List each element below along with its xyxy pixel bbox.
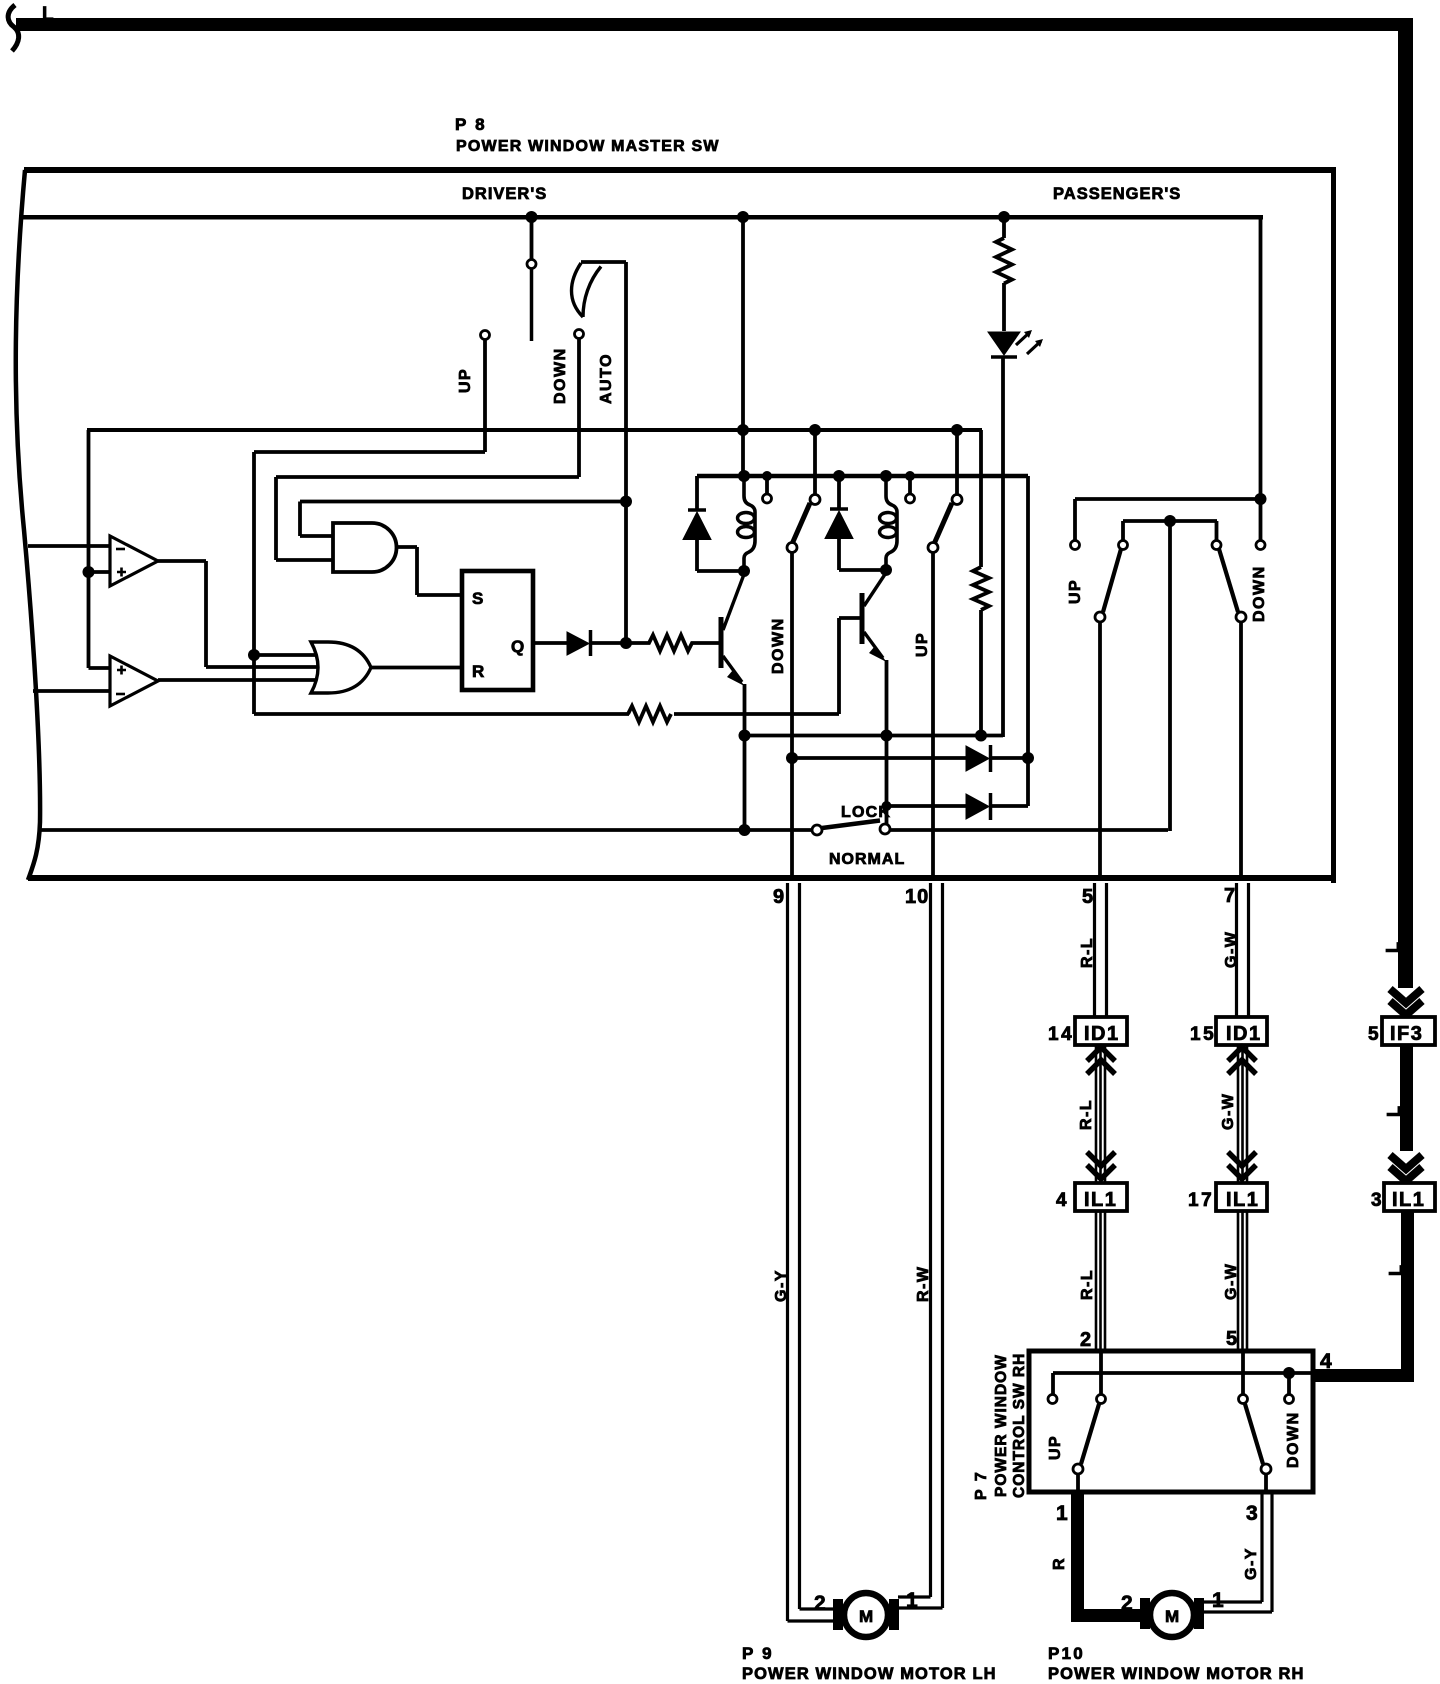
svg-text:5: 5 — [1082, 886, 1093, 908]
svg-text:L: L — [1384, 1106, 1404, 1117]
junction at op-amp1 + input — [83, 566, 95, 578]
junction AUTO line / feedback wire — [620, 496, 632, 508]
switch LOCK/NORMAL: right contact — [880, 824, 890, 834]
motor P10 right terminal (pin 1) — [1194, 1598, 1204, 1629]
connector arrows below 15 ID1 (pointing up) — [1228, 1047, 1256, 1074]
wire Q2 emitter down to LOCK contact — [885, 660, 889, 824]
junction logic bus / relay1 switch — [809, 424, 821, 436]
connector 5 IF3 — [1382, 1017, 1435, 1045]
svg-text:17: 17 — [1188, 1190, 1214, 1211]
transistor Q2 collector — [864, 572, 887, 606]
resistor R3 (vertical, from logic bus) — [973, 430, 989, 736]
svg-text:10: 10 — [905, 886, 929, 908]
resistor R1 (base of Q1) — [626, 635, 719, 651]
svg-text:DOWN: DOWN — [1285, 1411, 1302, 1468]
svg-text:L: L — [1383, 942, 1403, 953]
motor P9 (LH) body — [844, 1593, 888, 1637]
junction K1 output / diode D4 wire — [786, 752, 798, 764]
P7 left blade lower contact (pin 1) — [1073, 1464, 1083, 1474]
svg-text:1: 1 — [1056, 1502, 1068, 1525]
svg-text:IL1: IL1 — [1226, 1189, 1259, 1211]
junction passenger feed / UP contact wire — [1255, 493, 1267, 505]
wire relay contact bus — [697, 474, 1028, 479]
P7 right blade pivot (pin 5) — [1239, 1395, 1248, 1404]
junction Q1 emitter / lower bus — [739, 730, 751, 742]
diode D4 (interlock to passenger UP) — [792, 756, 966, 760]
connector 4 IL1 — [1075, 1183, 1127, 1211]
wire NORMAL bus (left part) — [41, 828, 812, 832]
svg-text:IL1: IL1 — [1392, 1189, 1425, 1211]
wire R thick pin 1 to motor RH — [1071, 1492, 1084, 1616]
wire op-amp U2 inverting input from page edge — [33, 689, 110, 693]
svg-text:CONTROL SW RH: CONTROL SW RH — [1011, 1353, 1028, 1498]
passenger switch blade pivot right — [1212, 541, 1221, 550]
diode D2 (DOWN relay clamp) — [695, 476, 699, 509]
junction UP wire to OR gate input — [248, 649, 260, 661]
relay K1 NC pip contact — [765, 476, 769, 493]
connector arrows above 4 IL1 (pointing down) — [1087, 1152, 1115, 1179]
passenger switch DOWN contact — [1256, 541, 1265, 550]
wire P7 pin1 stub — [1076, 1474, 1080, 1492]
relay K1 switch blade — [792, 503, 810, 544]
motor P9 left terminal (pin 2) — [833, 1599, 843, 1630]
wire L horizontal into P7 pin 4 — [1312, 1369, 1414, 1382]
connector 3 IL1 — [1384, 1183, 1435, 1211]
svg-text:14: 14 — [1048, 1024, 1074, 1045]
junction Q2 emitter / diode D5 wire — [882, 801, 892, 811]
svg-text:7: 7 — [1224, 885, 1235, 907]
wire AUTO feedback to AND gate top input — [300, 502, 626, 537]
wire passenger UP output to pin 5 — [1098, 622, 1102, 877]
relay K1 switch top contact — [813, 430, 817, 494]
junction coil1 / Q1 collector — [738, 565, 750, 577]
wire UP contact to comparator section — [254, 339, 485, 714]
relay K2 NC pip contact — [908, 476, 912, 493]
connector 14 ID1 — [1075, 1017, 1127, 1045]
passenger switch blade pivot left — [1119, 541, 1128, 550]
svg-text:UP: UP — [1047, 1435, 1064, 1460]
svg-text:Q: Q — [511, 637, 524, 656]
P7 right blade (DOWN) — [1245, 1404, 1263, 1464]
motor P10 left terminal (pin 2) — [1140, 1598, 1150, 1629]
transistor Q1 emitter with arrow — [723, 656, 742, 682]
connector arrows below 14 ID1 (pointing up) — [1087, 1047, 1115, 1074]
wire relay K1 output down to pin 9 — [790, 552, 794, 877]
relay K1 coil (DOWN) — [744, 477, 755, 571]
svg-text:POWER WINDOW MOTOR RH: POWER WINDOW MOTOR RH — [1048, 1665, 1305, 1683]
wire NORMAL bus (right part) to passenger common — [890, 521, 1170, 831]
junction R3 / lower bus — [975, 730, 987, 742]
driver's switch common stem — [530, 218, 534, 259]
svg-text:NORMAL: NORMAL — [829, 851, 905, 868]
connector arrow into IF3 (double chevron down) — [1390, 989, 1422, 1003]
svg-text:ID1: ID1 — [1084, 1023, 1120, 1045]
svg-text:15: 15 — [1190, 1024, 1216, 1045]
wire op-amp U2 output to OR gate bottom input — [158, 678, 322, 682]
wire G-Y pin 9 double line down to motor LH — [788, 883, 834, 1621]
junction passenger common / NORMAL wire — [1164, 515, 1176, 527]
wire Q1 emitter down to NORMAL wire — [743, 684, 747, 830]
component P7 control switch box — [1029, 1351, 1313, 1492]
op-amp U1 (upper comparator) — [110, 536, 158, 586]
svg-text:4: 4 — [1056, 1190, 1067, 1211]
junction on bus at relay feed — [737, 211, 749, 223]
wire R-W pin 10 double line down to motor LH — [898, 883, 931, 1597]
P7 right blade lower contact (pin 3) — [1261, 1464, 1271, 1474]
wire latch Q output — [532, 641, 567, 645]
relay K2 switch output contact — [928, 543, 938, 553]
svg-text:DOWN: DOWN — [1251, 565, 1268, 622]
wire P7 internal feed (pin 4) — [1053, 1371, 1312, 1375]
svg-text:G-W: G-W — [1223, 1263, 1240, 1300]
svg-text:S: S — [472, 589, 483, 608]
svg-text:POWER WINDOW MASTER SW: POWER WINDOW MASTER SW — [456, 138, 720, 155]
svg-text:G-W: G-W — [1223, 931, 1240, 968]
svg-text:DOWN: DOWN — [770, 617, 787, 674]
junction logic bus / relay2 switch — [951, 424, 963, 436]
junction contact bus / pip1 — [762, 471, 772, 481]
motor P9 right terminal (pin 1) — [889, 1599, 899, 1630]
svg-text:5: 5 — [1368, 1024, 1379, 1045]
component P8 box: top edge — [24, 167, 1336, 173]
wire passenger DOWN output to pin 7 — [1239, 622, 1243, 877]
junction logic bus / relay feed — [737, 424, 749, 436]
wire R-L between ID1 and IL1 — [1096, 1045, 1105, 1183]
svg-text:P10: P10 — [1048, 1644, 1085, 1663]
junction Q-diode / AUTO line — [620, 637, 632, 649]
transistor Q2 emitter with arrow — [864, 632, 883, 658]
passenger switch right blade lower contact — [1236, 612, 1246, 622]
svg-text:P 9: P 9 — [742, 1644, 774, 1663]
wire AND gate output to latch S input — [396, 547, 462, 595]
motor P10 (RH) body — [1150, 1593, 1194, 1637]
transistor Q2 (UP driver) base bar — [860, 593, 865, 644]
passenger switch left blade — [1103, 549, 1121, 612]
wire main bus right corner down (passenger feed) — [1259, 215, 1263, 541]
junction on bus at driver switch — [526, 211, 538, 223]
diode D1 (after Q output) — [567, 632, 589, 655]
relay K2 coil (UP) — [886, 477, 897, 570]
svg-text:ID1: ID1 — [1226, 1023, 1262, 1045]
op-amp U2 (lower comparator) — [110, 656, 158, 706]
relay K2 switch blade — [934, 503, 952, 544]
P7 UP fixed contact — [1051, 1373, 1055, 1394]
resistor R2 (base of Q2) — [628, 706, 671, 722]
svg-text:L: L — [1386, 1265, 1406, 1276]
svg-text:2: 2 — [1121, 1592, 1133, 1615]
svg-text:P 8: P 8 — [455, 115, 487, 134]
OR gate (3-input) — [311, 642, 371, 693]
passenger switch right blade — [1219, 549, 1238, 612]
relay K2 switch top contact — [955, 430, 959, 494]
svg-text:G-Y: G-Y — [1243, 1547, 1260, 1580]
component P8 box: wavy left edge (continuation) — [16, 170, 40, 880]
svg-text:5: 5 — [1226, 1328, 1237, 1350]
svg-text:R-L: R-L — [1079, 937, 1096, 968]
svg-text:UP: UP — [914, 632, 931, 657]
svg-text:DOWN: DOWN — [552, 347, 569, 404]
svg-text:G-Y: G-Y — [773, 1269, 790, 1302]
wire relay feed from main bus — [741, 216, 745, 477]
passenger switch left blade lower contact — [1095, 612, 1105, 622]
P7 left blade pivot (pin 2) — [1097, 1395, 1106, 1404]
svg-text:R-L: R-L — [1078, 1099, 1095, 1130]
wire op-amp U1 output to OR gate middle input — [158, 561, 322, 667]
transistor Q1 collector — [723, 573, 745, 630]
wire relay contact bus right drop — [1026, 476, 1030, 806]
svg-text:1: 1 — [906, 1589, 918, 1612]
switch LOCK/NORMAL: left contact — [812, 825, 822, 835]
junction contact bus / coil1 — [738, 470, 750, 482]
svg-text:2: 2 — [814, 1592, 826, 1615]
driver's switch UP contact — [481, 331, 490, 340]
wire op-amp U1 inverting input from page edge — [28, 544, 110, 548]
wire L below IL1 down to P7 pin 4 — [1401, 1211, 1414, 1382]
svg-text:3: 3 — [1371, 1190, 1382, 1211]
svg-text:1: 1 — [1212, 1589, 1224, 1612]
svg-text:R-L: R-L — [1079, 1269, 1096, 1300]
svg-text:3: 3 — [1246, 1502, 1258, 1525]
wire passenger UP contact feed — [1075, 499, 1260, 540]
wire G-W pin 7 double line to connector ID1 — [1237, 883, 1249, 1017]
junction on bus at LED feed — [998, 211, 1010, 223]
wire lower path to Q2 base — [254, 618, 860, 714]
wire lower bus corner up to LED branch — [1001, 358, 1005, 737]
svg-text:M: M — [1165, 1607, 1179, 1626]
svg-text:R-W: R-W — [915, 1266, 932, 1302]
transistor Q1 (DOWN driver) base bar — [719, 617, 724, 668]
AND gate — [333, 523, 397, 572]
driver's switch AUTO lever (curved flag) — [572, 263, 602, 317]
svg-text:2: 2 — [1080, 1329, 1091, 1351]
junction contact bus drop / diode D4 — [1022, 752, 1034, 764]
svg-text:UP: UP — [457, 368, 474, 393]
svg-text:IF3: IF3 — [1390, 1023, 1423, 1045]
wire R-L pin 5 double line to connector ID1 — [1095, 883, 1107, 1017]
relay K1 switch output contact — [787, 543, 797, 553]
svg-text:9: 9 — [773, 886, 784, 908]
wire L: thick top bus bar — [16, 18, 1413, 31]
junction contact bus / coil2 — [880, 470, 892, 482]
junction Q1 emitter / NORMAL wire — [739, 824, 751, 836]
wire AUTO to latch section — [581, 262, 626, 643]
LED D6 (illumination) — [988, 332, 1020, 355]
diode D3 (UP relay clamp) — [837, 476, 841, 508]
driver's switch DOWN contact — [575, 330, 584, 339]
wire G-Y pin 3 double line to motor RH — [1204, 1492, 1262, 1602]
resistor R4 (LED series, passenger) — [996, 216, 1012, 331]
svg-text:IL1: IL1 — [1084, 1189, 1117, 1211]
driver's switch pivot contact — [527, 260, 536, 269]
connector 15 ID1 — [1216, 1017, 1267, 1045]
continuation squiggle (page break mark) — [8, 5, 19, 51]
svg-text:AUTO: AUTO — [598, 353, 615, 404]
svg-text:POWER WINDOW MOTOR LH: POWER WINDOW MOTOR LH — [742, 1665, 997, 1683]
wire G-W between ID1 and IL1 — [1238, 1045, 1247, 1183]
svg-text:POWER WINDOW: POWER WINDOW — [993, 1354, 1010, 1497]
svg-text:UP: UP — [1067, 579, 1084, 604]
P7 DOWN fixed contact — [1287, 1373, 1291, 1394]
wire main supply bus inside P8 — [19, 215, 1263, 220]
junction P7 feed / DOWN contact — [1283, 1367, 1295, 1379]
svg-text:M: M — [859, 1607, 873, 1626]
wire logic top bus — [87, 428, 982, 432]
svg-text:R: R — [472, 662, 484, 681]
switch LOCK/NORMAL: blade — [822, 821, 880, 829]
wire R-L below IL1 to P7 pin 2 — [1096, 1211, 1105, 1351]
component P8 box: right edge — [1331, 167, 1336, 883]
svg-text:G-W: G-W — [1220, 1093, 1237, 1130]
component P8 box: bottom edge — [28, 875, 1336, 881]
wire junction to OR gate top input — [254, 653, 322, 657]
passenger switch UP contact — [1071, 541, 1080, 550]
junction Q2 emitter / lower bus — [881, 730, 893, 742]
svg-text:4: 4 — [1320, 1350, 1332, 1373]
wire G-W below IL1 to P7 pin 5 — [1238, 1211, 1247, 1351]
latch U3 (S-R flip flop) box — [462, 571, 533, 690]
svg-text:R: R — [1051, 1557, 1068, 1570]
wire L: thick right vertical drop — [1398, 18, 1413, 988]
connector arrow into IL1 (double chevron down) — [1390, 1155, 1422, 1169]
junction contact bus / diode D2 — [833, 470, 845, 482]
P7 left blade (UP) — [1081, 1404, 1099, 1464]
junction contact bus / pip2 — [905, 471, 915, 481]
connector 17 IL1 — [1216, 1183, 1267, 1211]
diode D5 (interlock to passenger DOWN) — [887, 804, 967, 808]
svg-text:PASSENGER'S: PASSENGER'S — [1053, 185, 1181, 203]
wire P7 pin3 stub — [1264, 1474, 1268, 1492]
wire L between IF3 and IL1 — [1400, 1045, 1413, 1151]
connector arrows above 17 IL1 (pointing down) — [1228, 1152, 1256, 1179]
driver's switch blade (neutral, hanging) — [530, 269, 534, 341]
wire relay K2 output down to pin 10 — [931, 552, 935, 877]
LED D6 emission arrows — [1016, 332, 1041, 354]
wire logic bus left drop to op-amp inputs — [89, 430, 111, 668]
svg-text:LOCK: LOCK — [841, 804, 891, 821]
svg-text:P 7: P 7 — [973, 1470, 990, 1500]
wire DOWN contact to AND gate input — [276, 338, 579, 560]
wire passenger switch common — [1123, 521, 1217, 540]
wire OR gate output to latch R input — [371, 666, 462, 670]
wire lower bus (emitters common) — [745, 734, 1004, 738]
junction coil2 / Q2 collector — [880, 564, 892, 576]
svg-text:DRIVER'S: DRIVER'S — [462, 185, 547, 203]
